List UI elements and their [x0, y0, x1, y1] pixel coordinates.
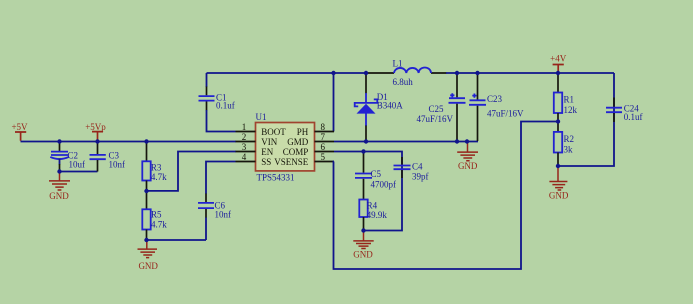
- ground GND below R5: [138, 241, 159, 271]
- svg-text:47uF/16V: 47uF/16V: [487, 108, 524, 118]
- svg-text:VSENSE: VSENSE: [274, 157, 309, 167]
- capacitor C6: [198, 162, 236, 241]
- capacitor C1: [199, 73, 236, 132]
- wire C2-C3 ground link: [60, 171, 98, 173]
- svg-text:+5V: +5V: [11, 122, 28, 132]
- svg-text:10nf: 10nf: [215, 209, 232, 219]
- svg-text:C5: C5: [371, 169, 382, 179]
- IC U1 TPS54331: [256, 112, 315, 183]
- junction R1/R2 feedback: [556, 119, 560, 123]
- pin 3 EN: [236, 142, 274, 157]
- capacitor C5: [355, 152, 396, 199]
- svg-text:3k: 3k: [564, 144, 574, 154]
- resistor R2: [554, 123, 574, 166]
- power port +4V: [550, 54, 567, 73]
- svg-text:8: 8: [320, 122, 325, 132]
- svg-text:12k: 12k: [564, 105, 578, 115]
- resistor R4: [359, 200, 387, 230]
- svg-text:C23: C23: [487, 94, 503, 104]
- svg-text:R4: R4: [367, 201, 378, 211]
- svg-text:GND: GND: [353, 250, 373, 260]
- svg-text:10uf: 10uf: [69, 159, 86, 169]
- capacitor C24: [606, 98, 643, 123]
- svg-text:6: 6: [320, 142, 325, 152]
- junction R2 bottom: [556, 164, 560, 168]
- power port +5V: [11, 122, 28, 141]
- svg-text:+5Vp: +5Vp: [85, 122, 106, 132]
- wire EN to R3/R5 node: [147, 152, 236, 191]
- svg-text:GND: GND: [549, 190, 569, 200]
- capacitor C23: [469, 74, 524, 141]
- pin 4 SS: [236, 152, 272, 167]
- ground GND below C2: [49, 172, 70, 201]
- svg-text:0.1uf: 0.1uf: [216, 100, 235, 110]
- svg-text:C25: C25: [429, 104, 445, 114]
- svg-text:6.8uh: 6.8uh: [393, 77, 414, 87]
- wire GND net pin7: [334, 141, 478, 143]
- svg-text:10nf: 10nf: [109, 159, 126, 169]
- ground GND below R4: [353, 232, 373, 260]
- svg-text:PH: PH: [297, 127, 309, 137]
- wire +5V input rail: [21, 141, 237, 143]
- svg-text:4.7k: 4.7k: [151, 172, 167, 182]
- svg-text:49.9k: 49.9k: [367, 210, 388, 220]
- junction R3 top: [144, 139, 148, 143]
- junction R3/R5/EN: [144, 189, 148, 193]
- svg-text:GND: GND: [49, 191, 69, 201]
- svg-text:4.7k: 4.7k: [151, 219, 167, 229]
- svg-text:L1: L1: [393, 58, 403, 68]
- junction GND stem: [465, 139, 469, 143]
- pin 2 VIN: [236, 132, 278, 147]
- svg-text:GND: GND: [458, 161, 478, 171]
- resistor R3: [142, 142, 167, 190]
- pin 7 GMD: [287, 132, 334, 147]
- power port +5Vp: [85, 122, 106, 141]
- pin 1 BOOT: [236, 122, 287, 137]
- capacitor C4: [394, 157, 429, 181]
- pin 8 PH: [297, 122, 334, 137]
- capacitor C25: [417, 74, 466, 141]
- wire COMP net: [334, 152, 402, 231]
- svg-text:R5: R5: [151, 210, 162, 220]
- pin 6 COMP: [283, 142, 334, 157]
- diode D1 B340A: [355, 74, 404, 141]
- capacitor C2: [50, 142, 85, 170]
- svg-text:4700pf: 4700pf: [371, 179, 397, 189]
- svg-text:2: 2: [242, 132, 247, 142]
- junction C25 bottom: [455, 139, 459, 143]
- svg-text:BOOT: BOOT: [261, 127, 286, 137]
- svg-text:R2: R2: [564, 134, 575, 144]
- junction R5 bottom: [144, 238, 148, 242]
- junction D1 bottom: [364, 139, 368, 143]
- pin 5 VSENSE: [274, 152, 334, 167]
- junction C25 top: [455, 71, 459, 75]
- inductor L1: [367, 58, 447, 86]
- svg-text:GND: GND: [138, 261, 158, 271]
- wire R2 bottom to C24: [558, 73, 614, 166]
- wire R5 bottom to C6 bottom: [147, 239, 207, 241]
- svg-text:47uF/16V: 47uF/16V: [417, 114, 454, 124]
- svg-text:TPS54331: TPS54331: [257, 173, 295, 183]
- junction D1 top: [364, 71, 368, 75]
- svg-text:COMP: COMP: [283, 147, 309, 157]
- svg-text:B340A: B340A: [377, 100, 404, 110]
- wire VSENSE feedback: [334, 122, 559, 270]
- junction C5 top: [361, 149, 365, 153]
- capacitor C3: [90, 142, 126, 171]
- svg-text:39pf: 39pf: [412, 171, 429, 181]
- wire top rail: [207, 72, 368, 74]
- junction +4V/R1: [556, 71, 560, 75]
- wire PH drop to pin 8: [333, 73, 335, 132]
- svg-text:GMD: GMD: [287, 137, 309, 147]
- junction R4 bottom: [361, 228, 365, 232]
- resistor R1: [554, 74, 578, 121]
- svg-text:7: 7: [320, 132, 325, 142]
- svg-text:5: 5: [320, 152, 325, 162]
- svg-text:4: 4: [242, 152, 247, 162]
- ground GND below R2: [549, 167, 569, 200]
- svg-text:EN: EN: [261, 147, 273, 157]
- junction C2 top: [57, 139, 61, 143]
- svg-text:R1: R1: [564, 94, 575, 104]
- svg-text:1: 1: [242, 122, 247, 132]
- svg-text:0.1uf: 0.1uf: [624, 112, 643, 122]
- ground GND near C25/C23: [457, 142, 478, 171]
- junction C23 top: [475, 71, 479, 75]
- resistor R5: [142, 192, 167, 240]
- svg-text:3: 3: [242, 142, 247, 152]
- svg-text:SS: SS: [261, 157, 271, 167]
- junction C3/+5Vp: [95, 139, 99, 143]
- junction C2 bottom: [57, 169, 61, 173]
- svg-text:C4: C4: [412, 162, 423, 172]
- svg-text:+4V: +4V: [550, 54, 567, 64]
- svg-text:VIN: VIN: [261, 137, 277, 147]
- junction PH drop: [331, 71, 335, 75]
- svg-text:U1: U1: [256, 112, 267, 122]
- wire top rail right: [446, 72, 614, 74]
